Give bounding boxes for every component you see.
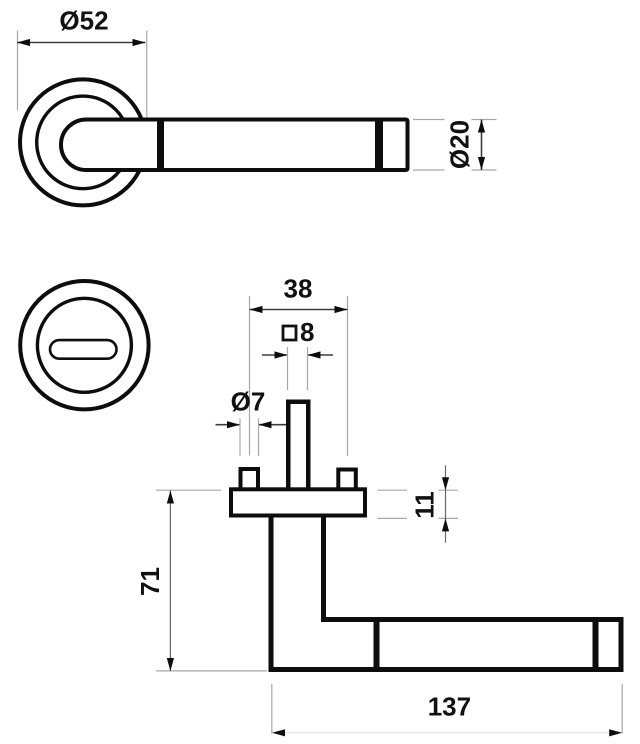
dimension 71 line: [169, 491, 171, 672]
dimension 137 line (faint): [272, 732, 622, 734]
handle neck and grip (front view L-shape): [271, 516, 621, 670]
svg-text:71: 71: [135, 567, 165, 596]
arrow Ø20 bottom: [478, 157, 485, 170]
extension lines of 8: [287, 347, 289, 390]
svg-text:11: 11: [410, 491, 440, 519]
rosette outer circle: [20, 79, 146, 205]
svg-text:Ø20: Ø20: [445, 120, 475, 169]
dimension 8 left line: [262, 354, 288, 356]
end band (top view): [375, 118, 383, 173]
extension dashes of 11: [378, 489, 408, 491]
arrow Ø20 top: [478, 120, 485, 133]
junction band (front view): [374, 617, 380, 672]
extension line right of Ø52: [146, 31, 148, 131]
arrow 71 top: [167, 491, 174, 504]
dimension Ø52 line: [17, 42, 146, 44]
dimension Ø7 left line: [216, 424, 241, 426]
neck/grip junction band (top view): [157, 118, 164, 173]
arrow 11 bottom (pointing up): [442, 518, 449, 531]
arrow Ø52 left: [17, 39, 30, 46]
arrow 137 right: [609, 729, 622, 736]
arrow 8 right: [308, 351, 321, 358]
svg-text:8: 8: [300, 317, 314, 347]
rosette plate (front view): [231, 489, 365, 515]
dimension 8 right line: [308, 354, 334, 356]
svg-text:137: 137: [428, 692, 471, 722]
wc rosette inner circle: [37, 298, 131, 392]
extension lines for Ø20: [413, 119, 445, 121]
dimension 38 line: [250, 309, 348, 311]
wc rosette outer circle: [20, 281, 148, 409]
dimension Ø7 right line: [259, 424, 287, 426]
screw post left: [241, 469, 259, 492]
arrow 137 left: [272, 729, 285, 736]
wc thumbturn slot: [50, 340, 117, 359]
arrow 11 top (pointing down): [442, 477, 449, 490]
rosette inner circle: [37, 96, 130, 189]
dimension Ø20 line: [481, 120, 483, 171]
arrow 38 left: [250, 306, 263, 313]
arrow Ø52 right: [133, 39, 146, 46]
svg-text:Ø52: Ø52: [59, 6, 108, 36]
spindle (square bar, front view): [288, 402, 308, 492]
screw post right: [338, 470, 356, 493]
arrow Ø7 right: [259, 421, 272, 428]
extension line 38 left: [249, 296, 251, 456]
extension lines of 137: [271, 684, 273, 734]
extension line left of Ø52: [17, 31, 19, 111]
arrow Ø7 left: [227, 421, 240, 428]
lever body (stadium shape, top view): [61, 120, 408, 171]
arrow 38 right: [335, 306, 348, 313]
svg-text:38: 38: [284, 274, 313, 304]
svg-text:Ø7: Ø7: [231, 387, 266, 417]
end band (front view): [593, 617, 599, 672]
dimension 11 line: [445, 465, 447, 542]
arrow 71 bottom: [167, 658, 174, 671]
extension lines of 71: [156, 489, 221, 491]
square symbol of □8: [283, 326, 296, 340]
extension lines of Ø7: [239, 419, 241, 457]
extension line 38 right: [347, 296, 349, 456]
arrow 8 left: [275, 351, 288, 358]
